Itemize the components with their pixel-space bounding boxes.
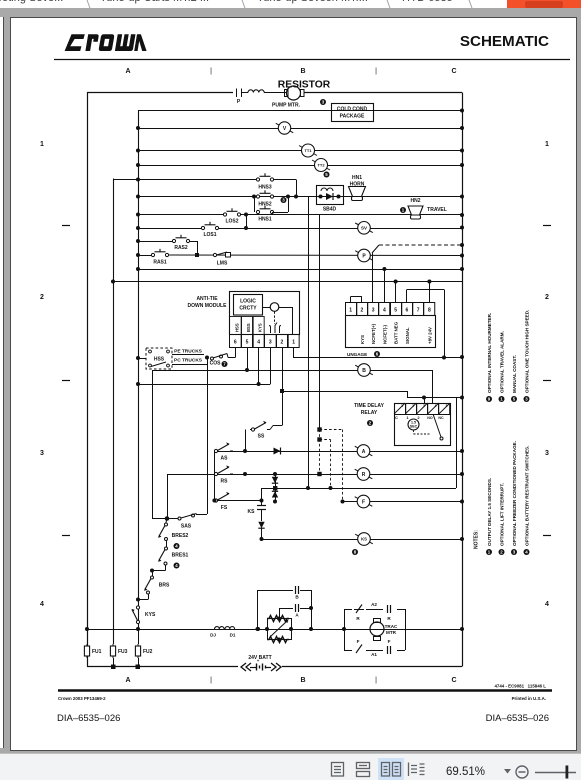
svg-text:5: 5 xyxy=(246,340,249,346)
svg-text:NC: NC xyxy=(438,416,444,420)
wire pin5 to y281 xyxy=(395,282,397,303)
svg-text:SEC: SEC xyxy=(410,425,418,429)
wire dashed drop x=319 xyxy=(319,430,321,475)
svg-text:1: 1 xyxy=(40,141,44,148)
svg-text:|: | xyxy=(210,68,212,75)
module pin cells xyxy=(230,335,242,348)
wire rung y=474 (R) xyxy=(167,474,462,476)
wire PE trucks line xyxy=(172,354,204,356)
svg-text:BRS: BRS xyxy=(159,583,170,589)
svg-text:NCFET(-): NCFET(-) xyxy=(382,324,387,344)
diode below KS xyxy=(258,522,264,528)
svg-text:TRAVEL: TRAVEL xyxy=(427,207,447,213)
svg-text:F: F xyxy=(388,639,391,644)
svg-text:B: B xyxy=(362,368,366,374)
svg-text:BSS: BSS xyxy=(246,323,251,332)
svg-text:2: 2 xyxy=(40,294,44,301)
bottom viewer toolbar xyxy=(0,753,581,780)
note col one touch xyxy=(524,396,530,402)
svg-text:A: A xyxy=(125,68,130,75)
wire rung y=281.5 xyxy=(113,281,462,283)
svg-text:69.51%: 69.51% xyxy=(446,766,485,778)
wire FS to KS cap xyxy=(260,499,264,503)
svg-text:LMS: LMS xyxy=(217,261,228,267)
wire drop x=319 xyxy=(319,215,321,430)
wire RS left drop xyxy=(167,474,169,519)
module LOGIC CRCTY box xyxy=(234,295,263,316)
svg-text:5: 5 xyxy=(394,308,397,314)
svg-text:A: A xyxy=(125,677,130,684)
svg-text:HSS: HSS xyxy=(235,323,240,332)
crown logo xyxy=(65,34,147,51)
gray toolbar band xyxy=(0,8,581,17)
note col freezer xyxy=(511,549,517,555)
svg-text:+8V 24V: +8V 24V xyxy=(427,327,432,344)
wire drop x=308 xyxy=(308,197,310,489)
wire diode chain x=275 xyxy=(275,474,277,502)
svg-text:OUTPUT DELAY 1.5 SECONDS.: OUTPUT DELAY 1.5 SECONDS. xyxy=(487,478,492,546)
svg-text:LOS1: LOS1 xyxy=(203,232,216,238)
switch RAS2 xyxy=(172,235,189,251)
wire dashed drop x=342 xyxy=(342,430,344,502)
wire module pin6 to COS xyxy=(235,347,237,358)
module switch symbol pins 3-2 xyxy=(269,312,281,334)
browser tab strip xyxy=(0,0,581,8)
switch LOS1 xyxy=(201,222,218,238)
svg-text:R: R xyxy=(362,472,366,478)
svg-text:ANTI-TIE: ANTI-TIE xyxy=(196,296,218,302)
wire frame left vertical xyxy=(87,93,89,667)
svg-text:MTR: MTR xyxy=(386,630,397,635)
svg-text:AS: AS xyxy=(221,456,229,462)
resistor network box xyxy=(256,619,292,640)
wire rung y=128 (V meter) xyxy=(138,128,462,130)
wire top line segment xyxy=(87,92,233,94)
svg-text:COLD COND: COLD COND xyxy=(337,107,368,113)
fuse FU3 xyxy=(110,644,127,658)
svg-text:LOS2: LOS2 xyxy=(225,219,238,225)
wire rung y=629 xyxy=(87,629,462,631)
svg-text:TT1: TT1 xyxy=(304,148,312,153)
wire pin1 connector down xyxy=(293,347,295,358)
svg-text:TRAC: TRAC xyxy=(385,624,398,629)
svg-text:DIA–6535–026: DIA–6535–026 xyxy=(57,713,120,724)
switch BRS xyxy=(138,576,170,600)
wire drop x=152 to SAS junction xyxy=(152,370,154,519)
svg-text:C: C xyxy=(451,677,456,684)
wire rung y=150 (TT1) xyxy=(138,150,462,152)
svg-text:R: R xyxy=(356,616,360,621)
switch RS xyxy=(214,465,233,484)
switch BRES1 xyxy=(158,541,189,569)
svg-text:NO: NO xyxy=(427,416,433,420)
svg-text:1: 1 xyxy=(406,415,409,420)
note col hourmeter xyxy=(486,396,492,402)
coil SV xyxy=(355,222,373,235)
svg-text:RELAY: RELAY xyxy=(361,410,378,416)
svg-text:Printed in U.S.A.: Printed in U.S.A. xyxy=(512,696,546,701)
switch FS xyxy=(214,492,261,511)
svg-text:FU2: FU2 xyxy=(143,649,153,655)
svg-text:2: 2 xyxy=(281,340,284,346)
contact A xyxy=(279,590,313,629)
svg-text:A2: A2 xyxy=(371,602,377,607)
note marker 3 top xyxy=(320,99,326,105)
svg-text:TT2: TT2 xyxy=(317,162,325,167)
wire module pin1 down xyxy=(293,347,295,358)
wire rung y=165 (TT2) xyxy=(138,165,462,167)
svg-text:P: P xyxy=(237,99,241,105)
fuse P xyxy=(237,89,249,106)
bridge box TRAC MTR xyxy=(344,609,346,650)
relay box xyxy=(395,404,451,446)
relay internal contact xyxy=(414,414,444,440)
connector block J1 cells xyxy=(346,303,357,316)
wire resistor right xyxy=(289,627,293,631)
svg-text:8: 8 xyxy=(428,308,431,314)
wire dashed pot line xyxy=(379,244,462,246)
svg-text:6: 6 xyxy=(234,340,237,346)
svg-text:HN1: HN1 xyxy=(352,175,362,181)
svg-text:B: B xyxy=(300,68,305,75)
svg-text:2: 2 xyxy=(412,404,414,408)
svg-text:6: 6 xyxy=(405,308,408,314)
note marker 5 xyxy=(324,172,330,178)
switch RAS1 xyxy=(151,249,168,266)
svg-text:B: B xyxy=(295,595,299,600)
switch HNS1 parallel xyxy=(255,197,289,223)
switch HSS box xyxy=(146,348,172,369)
svg-text:MANUAL COAST.: MANUAL COAST. xyxy=(512,355,517,393)
wire rung y=196.5 (HNS2/horn) xyxy=(138,196,462,198)
svg-text:3: 3 xyxy=(372,308,375,314)
note col travel alarm xyxy=(499,396,505,402)
svg-text:4744 - EC9081 115846 L: 4744 - EC9081 115846 L xyxy=(494,684,546,689)
svg-text:|: | xyxy=(375,677,377,684)
svg-text:PC TRUCKS: PC TRUCKS xyxy=(174,358,203,364)
svg-text:5: 5 xyxy=(446,404,448,408)
switch LOS2 xyxy=(223,208,240,224)
svg-text:|: | xyxy=(210,677,212,684)
meter TT1 xyxy=(299,144,317,157)
svg-text:RESISTOR: RESISTOR xyxy=(278,80,331,91)
svg-text:D1: D1 xyxy=(230,633,236,638)
resistor top zigzag xyxy=(267,616,289,622)
wire bus B1 x=113 xyxy=(113,179,115,645)
wire rung y=269 xyxy=(138,269,462,271)
svg-text:KS: KS xyxy=(248,509,256,515)
wire AS-RS-FS left ladder xyxy=(214,451,216,501)
svg-text:A: A xyxy=(362,449,366,455)
wire rung y=370 (D coil) xyxy=(152,370,432,372)
note marker 8 xyxy=(352,549,358,555)
svg-text:RAS1: RAS1 xyxy=(153,260,167,266)
svg-text:7: 7 xyxy=(417,308,420,314)
wire frame right vertical xyxy=(462,93,464,667)
svg-text:OPTIONAL INTERNAL HOURMETER.: OPTIONAL INTERNAL HOURMETER. xyxy=(487,313,492,393)
switch HNS2 xyxy=(256,190,273,207)
svg-text:FU3: FU3 xyxy=(118,649,128,655)
svg-text:HNS1: HNS1 xyxy=(258,217,272,223)
switch BRES2 xyxy=(158,519,189,550)
svg-text:1: 1 xyxy=(401,404,403,408)
right gray strip xyxy=(578,17,581,751)
wire rung y=539 (KS coil) xyxy=(262,539,463,541)
svg-text:1: 1 xyxy=(292,340,295,346)
wire dashed drop x=330 xyxy=(330,440,332,489)
switch KYS xyxy=(132,600,156,630)
wire rung y=110 xyxy=(138,110,462,112)
svg-text:HNS3: HNS3 xyxy=(258,185,272,191)
svg-text:1: 1 xyxy=(349,308,352,314)
wire rung y=451 (A) xyxy=(245,451,462,453)
suppressor SB4D xyxy=(317,186,344,213)
svg-text:PUMP MTR.: PUMP MTR. xyxy=(272,103,301,109)
svg-text:F: F xyxy=(357,639,360,644)
wire rung y=241 (RAS2) xyxy=(138,241,174,243)
switch SS xyxy=(246,421,283,451)
wire pin8 to y281 xyxy=(429,282,431,303)
fuse FU2 xyxy=(137,628,139,630)
horn HN1 xyxy=(349,175,366,201)
wire rung y=179.5 (HNS3) xyxy=(113,179,258,181)
svg-text:DJ: DJ xyxy=(210,633,216,638)
meter TT2 xyxy=(312,159,330,172)
svg-text:PE TRUCKS: PE TRUCKS xyxy=(174,349,203,355)
fuse FU1 xyxy=(84,644,101,658)
svg-text:3: 3 xyxy=(40,450,44,457)
svg-text:PACKAGE: PACKAGE xyxy=(340,114,365,120)
battery 24V BATT xyxy=(238,655,282,671)
svg-text:2: 2 xyxy=(417,415,420,420)
svg-text:KYS: KYS xyxy=(360,335,365,344)
contact R gap top-right xyxy=(387,605,389,613)
svg-text:SB4D: SB4D xyxy=(323,207,337,213)
svg-text:4: 4 xyxy=(40,601,44,608)
svg-text:4: 4 xyxy=(257,340,260,346)
wire pin3 to dashed xyxy=(372,253,374,302)
svg-text:FS: FS xyxy=(221,505,228,511)
svg-text:4: 4 xyxy=(435,404,437,408)
svg-text:1: 1 xyxy=(545,141,549,148)
svg-text:3: 3 xyxy=(423,404,425,408)
svg-text:2: 2 xyxy=(545,294,549,301)
svg-text:R: R xyxy=(387,616,391,621)
wire rung y=357 xyxy=(293,357,462,359)
coil B xyxy=(355,364,373,377)
wire module pin4 pin3 to bus xyxy=(258,347,260,384)
svg-text:A: A xyxy=(295,613,299,618)
svg-text:NOTES:: NOTES: xyxy=(474,530,480,549)
svg-text:BRES2: BRES2 xyxy=(172,533,189,539)
svg-text:24V BATT: 24V BATT xyxy=(248,655,271,661)
coil P xyxy=(355,249,373,262)
wire relay feeds xyxy=(407,391,409,398)
svg-text:COS: COS xyxy=(210,361,222,367)
resistor bottom zigzag xyxy=(267,637,289,643)
switch AS xyxy=(214,442,245,461)
svg-text:HN2: HN2 xyxy=(410,198,420,204)
header rule xyxy=(54,59,570,61)
footer rule xyxy=(58,689,552,692)
wire bus B2 x=138 xyxy=(138,110,140,629)
contact R slash top-left xyxy=(354,605,364,622)
svg-text:SV: SV xyxy=(361,225,367,230)
svg-text:KYS: KYS xyxy=(145,612,156,618)
note marker 3 hns2 xyxy=(281,197,287,203)
inductor D1 xyxy=(225,627,235,629)
wire pin4 to y269 xyxy=(384,269,386,302)
wire module pin5 to D line xyxy=(247,347,249,370)
svg-text:3: 3 xyxy=(545,450,549,457)
svg-text:SAS: SAS xyxy=(181,524,192,530)
svg-text:A1: A1 xyxy=(371,652,377,657)
note marker relay xyxy=(367,420,373,426)
capacitor KS xyxy=(248,506,266,522)
wire PC trucks line xyxy=(172,364,207,366)
svg-text:UNGAGE: UNGAGE xyxy=(347,352,367,357)
module pin top boxes HSS BSS KYS xyxy=(230,317,242,335)
wire rung y=501.5 (F) xyxy=(342,501,462,503)
switch HNS3 xyxy=(256,173,273,190)
svg-text:FU1: FU1 xyxy=(92,649,102,655)
note col lift interrupt xyxy=(499,549,505,555)
svg-text:OPTIONAL ONE TOUCH HIGH SPEED.: OPTIONAL ONE TOUCH HIGH SPEED. xyxy=(524,310,529,393)
svg-text:RS: RS xyxy=(221,479,229,485)
note col battery restraint xyxy=(524,549,530,555)
svg-text:4: 4 xyxy=(383,308,386,314)
inductor DJ xyxy=(215,627,225,629)
relay timer circle xyxy=(408,419,419,430)
coil A xyxy=(355,445,373,458)
svg-text:C: C xyxy=(395,415,398,420)
svg-text:C: C xyxy=(451,68,456,75)
relay top cells xyxy=(395,404,406,415)
switch COS xyxy=(205,354,228,368)
svg-text:B: B xyxy=(300,677,305,684)
svg-text:|: | xyxy=(375,68,377,75)
coil KS xyxy=(355,533,373,546)
svg-text:3: 3 xyxy=(269,340,272,346)
wire to pump motor xyxy=(264,92,286,94)
diode on A rung xyxy=(274,448,281,455)
pump motor PUMP MTR xyxy=(272,86,462,109)
wire pin6 up-right xyxy=(406,290,408,303)
wire bridge right to frame xyxy=(405,629,462,631)
svg-text:SCHEMATIC: SCHEMATIC xyxy=(460,33,549,50)
inductor on pump line xyxy=(248,90,264,93)
contact F slash bottom-left xyxy=(356,639,362,653)
svg-text:LOGIC: LOGIC xyxy=(240,299,256,305)
trac motor xyxy=(344,619,398,641)
svg-text:OPTIONAL LIFT INTERRUPT.: OPTIONAL LIFT INTERRUPT. xyxy=(499,483,504,546)
wire BRES to BRS corner xyxy=(165,565,167,571)
svg-text:CRCTY: CRCTY xyxy=(239,306,257,312)
svg-text:OPTIONAL FREEZER CONDITIONED P: OPTIONAL FREEZER CONDITIONED PACKAGE. xyxy=(512,441,517,546)
svg-text:HSS: HSS xyxy=(154,357,165,363)
svg-text:KS: KS xyxy=(361,537,367,542)
resistor wiper arrow xyxy=(270,621,287,637)
wire pin1-2 bridge xyxy=(350,297,352,303)
svg-text:BATT NEG: BATT NEG xyxy=(394,321,399,344)
contact F gap bottom-right xyxy=(387,646,389,654)
svg-text:2: 2 xyxy=(360,308,363,314)
wire rung y=255 (RAS1/LMS/P) xyxy=(138,255,153,257)
wire rung y=228 (LOS1/SV) xyxy=(138,228,203,230)
note col manual coast xyxy=(511,396,517,402)
svg-text:TIME DELAY: TIME DELAY xyxy=(354,403,384,409)
wire rung y=215 (LOS2/travel) xyxy=(138,214,225,216)
svg-text:OPTIONAL TRAVEL ALARM.: OPTIONAL TRAVEL ALARM. xyxy=(499,331,504,393)
wire module pin2 down (SS feed) xyxy=(282,347,284,426)
svg-text:NCFET(+): NCFET(+) xyxy=(371,323,376,344)
svg-text:SS: SS xyxy=(258,434,265,440)
horn HN2 TRAVEL xyxy=(400,198,447,219)
svg-text:DIA–6535–026: DIA–6535–026 xyxy=(486,713,549,724)
wire rung y=488 xyxy=(262,488,457,490)
module anti-tie down box xyxy=(230,292,300,335)
module coil circle xyxy=(270,303,279,312)
wire HSS feed from bus xyxy=(138,358,146,360)
wire BRS to bus dot xyxy=(136,598,140,602)
contact B xyxy=(256,586,312,631)
svg-text:OPTIONAL BATTERY RESTRAINT SWI: OPTIONAL BATTERY RESTRAINT SWITCHES. xyxy=(524,446,529,546)
switch LMS xyxy=(213,252,230,267)
adjacent page sliver at far left xyxy=(0,17,4,748)
svg-text:Crown 2003 PF13469-2: Crown 2003 PF13469-2 xyxy=(58,696,106,701)
svg-text:DOWN MODULE: DOWN MODULE xyxy=(188,303,228,309)
switch SAS xyxy=(152,514,207,530)
svg-text:SIGNAL: SIGNAL xyxy=(405,327,410,344)
box COLD COND PACKAGE xyxy=(332,104,374,122)
svg-text:KYS: KYS xyxy=(258,323,263,332)
coil R xyxy=(355,468,373,481)
wire fuse bottoms to frame bottom xyxy=(113,658,115,667)
wire frame bottom (battery line) xyxy=(87,666,462,668)
svg-text:F: F xyxy=(362,499,365,505)
note col output delay xyxy=(486,549,492,555)
meter V xyxy=(276,122,293,134)
svg-text:RAS2: RAS2 xyxy=(174,245,188,251)
wire COS drop x=207 xyxy=(207,364,209,514)
svg-text:BRES1: BRES1 xyxy=(172,553,189,559)
coil F xyxy=(355,495,373,508)
svg-text:4: 4 xyxy=(545,601,549,608)
